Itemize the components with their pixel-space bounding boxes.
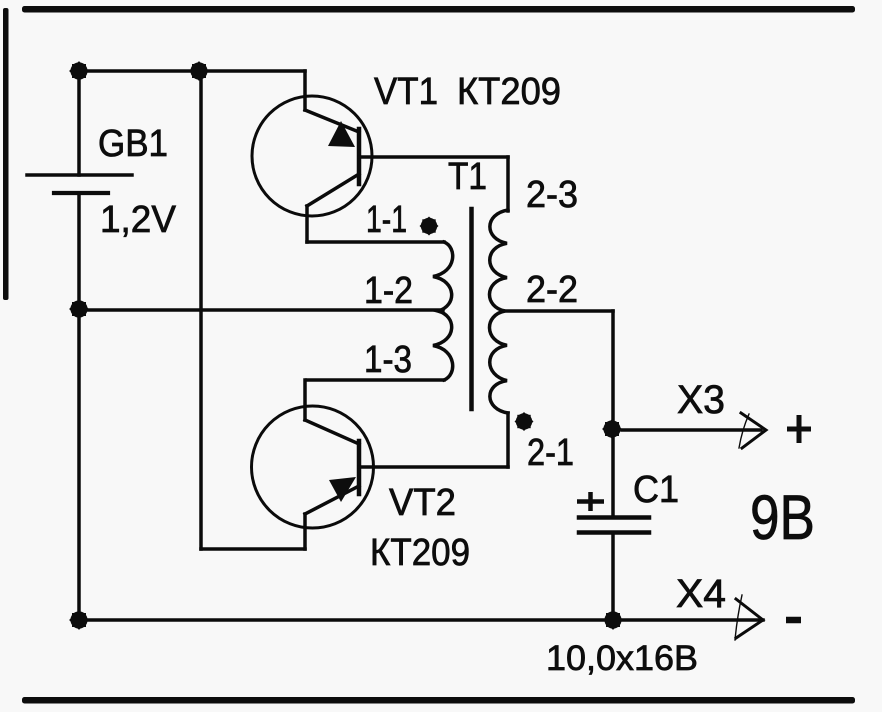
- junction dot X3 node: [602, 419, 622, 439]
- wire middle rail to 1-2: [79, 308, 443, 312]
- transistor VT1 lower diagonal: [307, 174, 359, 206]
- wire 1-3 tap: [307, 378, 444, 382]
- connector X3 line: [622, 428, 761, 432]
- transistor VT2 upper diagonal: [305, 420, 359, 444]
- symbol minus X4: [786, 617, 801, 624]
- transistor VT2 lower diagonal: [305, 486, 359, 514]
- capacitor C1 bottom plate: [579, 530, 649, 535]
- symbol plus X3: [787, 415, 811, 443]
- svg-text:2-3: 2-3: [526, 174, 578, 216]
- transistor VT1 upper diagonal: [305, 110, 359, 132]
- transformer T1 secondary top lead: [506, 157, 510, 211]
- connector X4 arrowhead: [736, 599, 763, 638]
- wire right rail lower: [611, 533, 615, 621]
- junction dot J1: [69, 61, 89, 81]
- transistor VT2 circle: [252, 406, 374, 528]
- svg-text:1-1: 1-1: [366, 199, 407, 241]
- transformer T1 secondary winding: [489, 210, 508, 413]
- transistor VT2 base bar: [357, 441, 362, 494]
- transistor VT1 collector stub top: [303, 71, 307, 110]
- svg-text:КТ209: КТ209: [370, 532, 470, 574]
- wire 1-1 tap: [307, 240, 444, 244]
- svg-text:КТ209: КТ209: [457, 71, 561, 113]
- transistor VT1 base bar: [357, 129, 362, 184]
- svg-text:VT2: VT2: [389, 482, 456, 524]
- transistor VT2 emitter stub bottom: [303, 514, 307, 549]
- svg-text:2-1: 2-1: [527, 432, 574, 474]
- connector X3 arrowhead: [741, 413, 766, 448]
- svg-text:GB1: GB1: [98, 123, 168, 165]
- svg-text:X4: X4: [676, 572, 726, 616]
- wire rail 2 vertical: [199, 71, 203, 549]
- svg-text:1-3: 1-3: [364, 339, 412, 381]
- polarity dot winding 2-1: [515, 412, 534, 431]
- battery GB1 long plate: [27, 173, 132, 177]
- junction dot J4: [69, 610, 89, 630]
- border bar bottom: [22, 697, 855, 704]
- wire bottom rail: [79, 618, 763, 622]
- svg-text:2-2: 2-2: [526, 269, 578, 311]
- wire battery bottom lead: [77, 193, 81, 309]
- transistor VT2 collector stub top: [303, 380, 307, 420]
- svg-text:T1: T1: [448, 156, 487, 198]
- capacitor C1 top plate: [579, 515, 649, 520]
- transformer T1 secondary bottom lead: [506, 413, 510, 467]
- battery GB1 short plate: [54, 191, 108, 195]
- wire left rail lower: [77, 309, 81, 620]
- svg-text:X3: X3: [677, 378, 725, 422]
- transformer T1 primary winding: [433, 242, 453, 380]
- transistor VT1 base line: [359, 155, 508, 159]
- transistor VT1 circle: [252, 96, 372, 216]
- transistor VT1 emitter stub bottom: [305, 206, 309, 242]
- symbol plus C1: [577, 492, 604, 511]
- junction dot X4 node: [603, 610, 623, 630]
- svg-text:9В: 9В: [750, 483, 815, 553]
- svg-text:VT1: VT1: [374, 71, 438, 113]
- transformer T1 core: [469, 209, 474, 409]
- svg-text:1,2V: 1,2V: [100, 199, 177, 241]
- wire rail 2 to VT2 emitter: [201, 547, 305, 551]
- border bar top: [22, 6, 855, 13]
- wire top rail: [79, 69, 305, 73]
- connector X4 slash: [735, 595, 742, 640]
- wire battery top lead: [77, 71, 81, 175]
- connector X3 slash: [739, 414, 749, 448]
- transistor VT2 arrow: [329, 477, 356, 502]
- transistor VT2 base line: [359, 465, 508, 469]
- border bar left: [3, 8, 9, 300]
- svg-text:1-2: 1-2: [364, 270, 413, 312]
- svg-text:10,0x16В: 10,0x16В: [546, 639, 698, 678]
- wire 2-2 tap to right rail: [504, 309, 613, 313]
- transistor VT1 arrow: [328, 121, 355, 147]
- junction dot J2: [189, 61, 209, 81]
- polarity dot winding 1-1: [420, 217, 439, 236]
- svg-text:C1: C1: [633, 469, 679, 511]
- wire right rail upper: [611, 311, 615, 518]
- junction dot J3: [69, 299, 89, 319]
